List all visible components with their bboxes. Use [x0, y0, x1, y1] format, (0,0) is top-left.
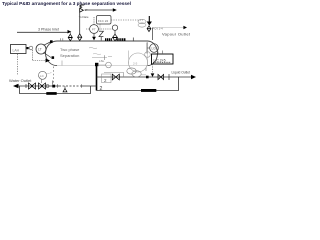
- svg-text:Vapour Outlet: Vapour Outlet: [162, 32, 191, 37]
- svg-text:PCV 2-4: PCV 2-4: [153, 27, 164, 31]
- svg-text:2-5: 2-5: [133, 62, 138, 66]
- svg-text:3 Phase Inlet: 3 Phase Inlet: [38, 28, 59, 32]
- svg-text:LT: LT: [38, 48, 42, 52]
- svg-text:Typical P&ID arrangement for a: Typical P&ID arrangement for a 3 phase s…: [2, 1, 131, 6]
- svg-text:2: 2: [100, 86, 103, 92]
- svg-text:To Flare: To Flare: [79, 15, 89, 19]
- svg-text:PT: PT: [92, 28, 96, 32]
- svg-text:LG: LG: [152, 47, 157, 51]
- svg-text:Water Outlet: Water Outlet: [9, 78, 32, 83]
- svg-text:LAH: LAH: [13, 49, 20, 53]
- svg-text:Two phase: Two phase: [60, 47, 80, 52]
- svg-text:LSL: LSL: [99, 59, 105, 63]
- svg-text:Separation: Separation: [60, 53, 79, 58]
- svg-text:F1C 24: F1C 24: [98, 19, 108, 23]
- svg-text:Liquid Outlet: Liquid Outlet: [172, 70, 191, 74]
